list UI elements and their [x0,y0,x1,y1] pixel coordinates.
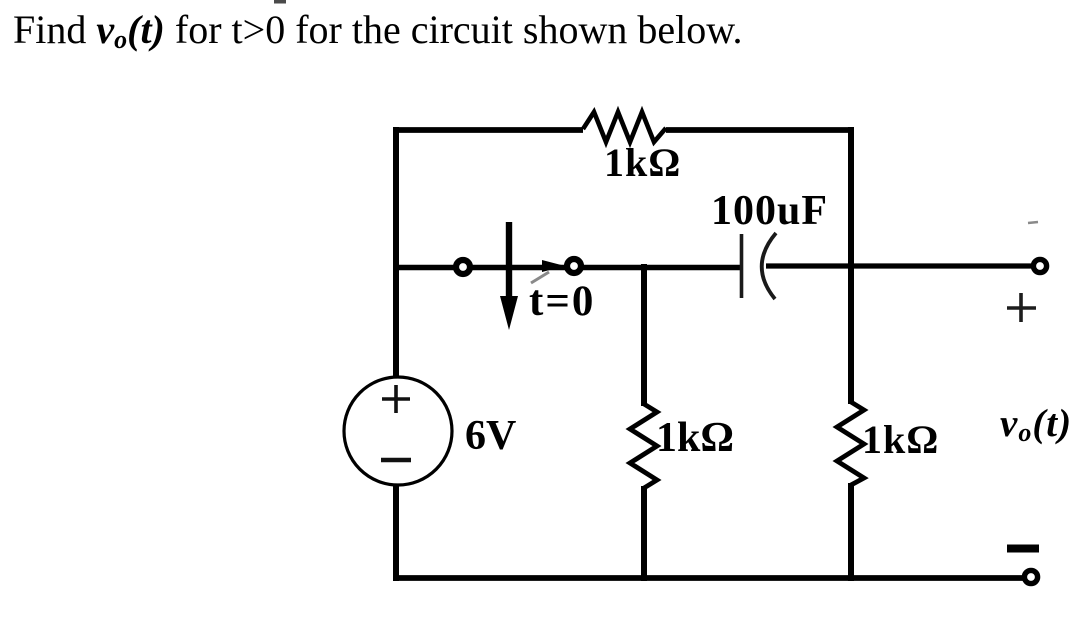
capacitor C1 [742,233,777,299]
wire: middle branch upper [641,264,647,406]
resistor R1 1kOhm (top) [583,112,666,142]
wire: middle rail right of capacitor [766,263,1040,268]
svg-text:t=0: t=0 [529,278,595,325]
title [13,6,743,53]
output terminal + (circle) [1033,259,1046,272]
switch S1 closing arrow [531,260,565,283]
switch node a (left terminal circle) [456,260,470,274]
wire: top rail left segment [393,127,583,133]
svg-text:1kΩ: 1kΩ [604,140,681,185]
wire: right branch upper [848,127,854,404]
svg-text:1kΩ: 1kΩ [862,417,939,462]
resistor R2 1kOhm (middle) [630,404,657,488]
voltage source V1 [344,377,452,485]
wire: top rail right segment [666,127,854,133]
switch S1 lever arrow [500,222,518,330]
wire: left branch lower [393,484,399,581]
svg-text:6V: 6V [465,413,516,459]
wire: left branch upper [393,127,399,378]
resistor R3 1kOhm (right) [837,402,864,485]
svg-text:1kΩ: 1kΩ [656,415,734,461]
wire: middle rail left of capacitor [393,265,741,271]
wire: middle branch lower [641,486,647,581]
wire: bottom rail [393,575,1031,581]
stray dash above output terminal [1028,222,1038,223]
wire: right branch lower [848,483,854,581]
output terminal - (circle) [1024,570,1037,583]
svg-text:100uF: 100uF [711,188,828,234]
label output minus sign [1007,545,1039,553]
stray mark (top edge) [274,0,286,4]
label output plus sign [1007,293,1036,322]
svg-text:vo(t): vo(t) [1000,402,1072,447]
switch node b (right terminal circle) [567,259,581,273]
